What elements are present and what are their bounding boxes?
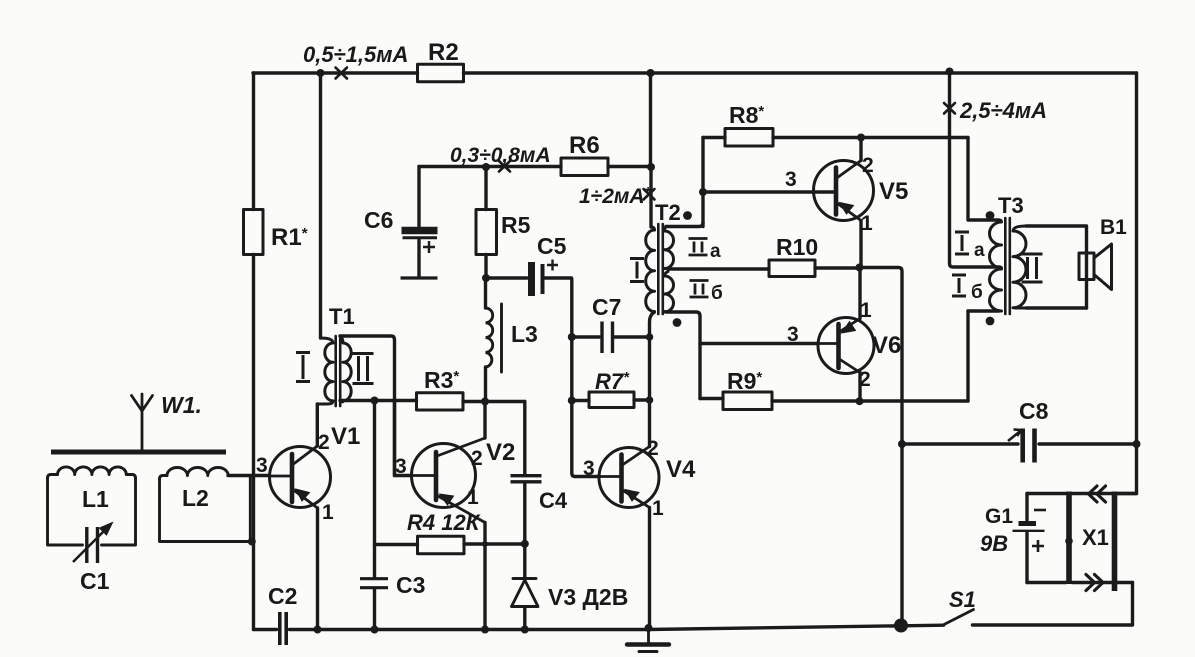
svg-text:L2: L2 [182,485,209,511]
svg-text:б: б [971,282,983,303]
switch S1 blade [944,610,974,625]
capacitor C6 end bar [401,276,438,279]
X mark 1-2mA [644,189,655,200]
capacitor C2 plates [280,612,286,645]
svg-text:1: 1 [322,501,334,524]
phase dot T2 label [683,211,692,220]
capacitor C5 plus sign [547,260,558,271]
coil L2 [160,468,254,542]
wire X1 top between contacts [1072,492,1113,495]
node: C3 branch on bottom rail [371,626,379,634]
node: V5 V6 emitter / R10 right [856,264,864,272]
wire C7 right to T2 bottom line [615,335,650,338]
svg-text:2: 2 [471,447,483,470]
wire C7 junction down to R7 left [570,337,573,401]
svg-text:3: 3 [256,454,268,477]
node: V4 emitter on bottom rail [645,624,653,632]
svg-text:1: 1 [652,497,664,520]
wire right rail [1117,73,1137,494]
wire R3 right to C4 branch [463,400,525,403]
wire T3 Ib bottom riser [966,311,969,401]
wire V6 base [700,342,819,345]
ferrite rod of magnetic antenna [51,450,226,455]
wire T3 Ia top feed from V5 collector line [968,138,999,221]
svg-text:3: 3 [785,168,797,191]
svg-text:R6: R6 [569,132,600,159]
svg-text:W1.: W1. [161,392,202,418]
capacitor C5 electrolytic plates [532,262,543,296]
T3 core [1005,218,1010,314]
wire R5 top [484,167,487,210]
resistor R4 [418,536,465,554]
measuring point X marks [336,68,956,200]
capacitor C8 plates [1023,429,1035,463]
T1 primary I winding [321,338,334,343]
wire L3 bottom to R3 junction [484,367,487,402]
node: V2 emitter on bottom rail [481,626,489,634]
transistor V6 [818,318,874,374]
resistor R10 [769,260,815,277]
svg-text:C8: C8 [1019,398,1049,424]
connector X1 right contact bar [1112,492,1118,592]
wire V6 collector drop [858,373,861,402]
wire X1 bottom between contacts [1072,581,1113,584]
node: R8 right / V5 collector [857,134,865,142]
node: R5 top on measuring wire [482,163,490,171]
wire C7 left [572,335,600,338]
svg-text:V3 Д2В: V3 Д2В [548,584,628,610]
svg-text:б: б [711,283,723,304]
wire V1 base from L2 [228,474,270,477]
phase dot T2 bottom [673,318,682,327]
svg-text:V2: V2 [486,439,515,466]
wire T2 tap to R10 [668,267,769,270]
resistor R5 [476,210,497,255]
node: C7 left / C5 riser [568,333,576,341]
phase dot T3 top [986,211,995,220]
wire top rail right segment [464,71,1137,74]
svg-text:1: 1 [861,212,873,235]
wire C6 stub to end bar [417,239,420,277]
wire V5 emitter drop [859,221,862,268]
resistor R8 [725,129,773,147]
connector X1 bottom plug chevrons [1086,575,1103,591]
svg-text:T3: T3 [998,193,1024,218]
battery G1 cell plates [1013,524,1045,531]
wire R8 riser [701,138,704,227]
wire R9 left link [700,397,723,400]
wire X1 bottom contact to switch rail [1117,581,1133,584]
svg-text:a: a [974,240,985,261]
svg-text:2: 2 [862,154,874,177]
X mark 2.5-4mA [944,103,955,114]
resistor R1 [244,210,264,255]
resistor R3 [417,393,464,410]
wire bottom rail right of S1 [973,583,1133,626]
battery G1 minus sign [1034,509,1046,512]
node: V1 emitter on bottom rail [314,626,322,634]
wire top rail left segment [253,71,418,74]
svg-text:3: 3 [787,323,799,346]
wire V6 emitter riser [858,268,861,319]
winding label T2 IIa [689,239,708,256]
T3 primary Ia winding [990,220,1002,268]
wire V4 emitter to bottom rail [648,508,651,629]
wire V1 emitter to bottom rail [316,508,319,630]
ground symbol at V4 emitter [627,628,669,652]
antenna W1 [132,394,153,450]
connector X1 left contact bar [1066,492,1072,585]
node: R5 bottom / C5 / L3 [482,274,490,282]
resistor R6 [561,158,608,176]
T1 secondary II winding [340,336,351,402]
speaker B1 [1079,244,1112,290]
node: R7 right on V4 collector line [646,396,654,404]
wire X1 top contact to rail [1117,492,1137,495]
svg-text:C7: C7 [592,294,621,320]
wire diode V3 to bottom rail [523,607,526,630]
transformer T2 [646,224,674,314]
svg-text:R2: R2 [428,39,459,66]
T2 secondary IIa winding [665,227,674,270]
svg-text:C6: C6 [364,207,393,233]
wire V2 base riser to R3 left wire [393,402,396,476]
wire R4 junction to diode V3 [523,544,526,578]
wire C8 left [902,442,1018,445]
transistor V4 [599,447,659,508]
svg-text:L1: L1 [82,486,109,512]
PARTS [244,64,816,554]
svg-text:3: 3 [395,455,407,478]
winding label T3 Ib [952,275,966,296]
wire T2 primary bottom to V4 collector [650,313,654,447]
svg-text:X1: X1 [1082,525,1109,550]
svg-text:1÷2мА*: 1÷2мА* [579,184,652,208]
wire T3 secondary bottom to speaker [1026,306,1087,309]
svg-text:C5: C5 [537,233,567,259]
capacitor C7 plates [602,322,613,354]
node: R4 right / C4 / V3 [521,540,529,548]
wire T1 secondary bottom junction down through C3 [373,401,376,578]
node: common riser on bottom rail [894,619,908,633]
wire R4 left to T1 vertical [375,543,418,546]
resistor R7 [589,392,634,408]
wire battery left lower [1025,533,1028,583]
wire R7 left link [572,399,589,402]
node: C8 left on common riser [898,440,906,448]
svg-text:R4 12К: R4 12К [407,510,481,535]
node: T1 secondary bottom junction [371,397,379,405]
resistor R9 [723,392,772,410]
wire T3 center tap from top rail [950,72,1000,268]
svg-text:T2: T2 [655,200,681,225]
T3 secondary II winding [1013,226,1026,308]
svg-text:9В: 9В [980,531,1008,556]
wire T1 primary bottom to V1 collector [316,404,319,446]
svg-text:2: 2 [647,437,659,460]
svg-text:V5: V5 [879,178,908,205]
capacitor C1 arrow [73,523,113,563]
wire R4 right to C4 branch [464,542,525,545]
wire T2 IIa top to R8 riser [666,223,703,227]
phase dot T3 bottom [986,317,995,326]
wire R9 right to T3 Ib bottom riser [772,399,968,402]
node: R3 right / L3 bottom / V2 collector [481,398,489,406]
node: R6 riser on top rail [647,69,655,77]
wire R8 left link [703,136,725,139]
T2 secondary IIb winding [665,272,674,313]
svg-text:1: 1 [860,299,872,322]
node: X1 left bar mid [1065,537,1073,545]
T2 core [658,224,663,314]
capacitor C6 plus sign [423,241,435,253]
wire V4 base riser [572,401,599,477]
node: R6 right on T2 feed [647,163,655,171]
svg-text:C3: C3 [396,572,425,598]
wire emitter junction to common riser [860,268,903,626]
svg-text:0,5÷1,5мА: 0,5÷1,5мА [303,42,408,67]
wire V5 base [703,190,833,193]
coil L1 [48,467,136,545]
X mark 0.3-0.8mA [499,161,510,172]
wire bottom rail main [290,625,944,629]
svg-text:L3: L3 [511,321,538,347]
wire bottom rail left of C2 [254,628,277,631]
svg-text:0,3÷0,8мА: 0,3÷0,8мА [450,144,551,167]
transformer T1 [317,336,351,406]
svg-text:R10: R10 [776,234,818,260]
wire V2 emitter to bottom rail [483,523,486,630]
wire measuring line 0.3-0.8mA to R6 [419,165,561,168]
wire R5 junction to C5 [486,276,527,279]
svg-text:V4: V4 [666,456,696,483]
winding label T3 II [1022,254,1043,282]
svg-text:2: 2 [318,431,330,454]
battery G1 plus sign [1032,540,1044,552]
winding label T3 Ia [955,232,969,254]
capacitor C1 variable plates [87,527,98,563]
wire T1 secondary top to V2 base riser [340,336,411,476]
wire R5 bottom [484,255,487,279]
winding label T2 I [630,259,644,282]
node: T1 feed on top rail [317,69,325,77]
capacitor C3 plates [360,579,388,588]
coil L3 with core [486,304,502,372]
connector X1 top plug chevrons [1089,486,1106,502]
transformer T3 [990,218,1027,314]
svg-text:V1: V1 [331,423,360,450]
node: C8 right on right rail [1133,440,1141,448]
wire V5 collector riser [859,138,862,161]
wire C3 bottom to rail [373,589,376,630]
winding label T2 IIb [690,281,709,298]
svg-text:C4: C4 [539,488,568,513]
winding label T1 II [353,354,374,384]
wire battery bottom [1027,581,1066,584]
svg-text:a: a [710,241,721,262]
wire V2 collector riser [483,402,486,439]
wire left rail [252,73,255,630]
capacitor C6 electrolytic plates [402,231,438,238]
svg-text:S1: S1 [949,587,976,612]
svg-text:1: 1 [467,486,479,509]
svg-text:R5: R5 [501,212,531,238]
X mark 0.5-1.5mA [336,68,348,79]
resistor R2 [418,64,464,82]
svg-text:3: 3 [583,457,595,480]
node: L2 bottom on left rail [248,538,256,546]
wire battery left upper [1025,494,1028,521]
wire T1 primary feed from top rail [319,73,322,338]
wire C8 right [1039,442,1137,445]
node: C7 right on T2 bottom line [646,333,654,341]
wire C4 branch upper [523,402,526,474]
wire T3 Ib bottom link [968,309,999,312]
winding label T1 I [296,353,310,382]
wire R10 right to emitter junction [815,266,860,269]
wire T3 secondary top to speaker [1026,226,1087,308]
node: V6 collector / R9 right [856,397,864,405]
svg-text:V6: V6 [872,332,901,359]
transistor V2 [411,438,485,523]
wire R7 right link [634,398,650,401]
svg-text:G1: G1 [985,505,1013,528]
wire T1 secondary bottom to R3 [340,399,417,402]
wire C4 to R4 junction [523,484,526,544]
wire T2 IIb bottom to V6 base branch [666,312,700,399]
svg-text:2,5÷4мА: 2,5÷4мА [959,98,1047,123]
node: R7 left riser [568,397,576,405]
svg-text:В1: В1 [1100,216,1127,239]
svg-text:2: 2 [859,368,871,391]
wire C6 branch from measuring wire [417,167,420,227]
T1 core [336,336,341,406]
node: T3 center tap on top rail [946,68,954,76]
node: V5 base / R8 left riser [699,188,707,196]
wire R6 vertical from top rail [649,73,652,167]
wire C5 right to C7 riser [545,278,572,337]
wire battery top [1027,492,1066,495]
svg-text:C1: C1 [80,568,110,594]
node: V3 diode on bottom rail [521,626,529,634]
capacitor C8 arrow tick [1008,430,1022,442]
T2 primary I winding [651,227,655,230]
transistor V1 [270,446,331,508]
svg-text:C2: C2 [268,583,297,609]
transistor V5 [814,161,874,221]
wire R8 right to V5 collector junction and T3 [773,136,968,139]
wire L3 top [484,278,487,308]
svg-text:T1: T1 [329,304,355,329]
capacitor C4 plates [511,476,542,482]
wire T2 primary feed [649,167,652,227]
node: V2 emitter on R4 wire [482,541,488,547]
T3 primary Ib winding [990,267,1002,311]
wire R6 right to T2 feed [608,165,651,168]
diode V3 [512,579,539,607]
